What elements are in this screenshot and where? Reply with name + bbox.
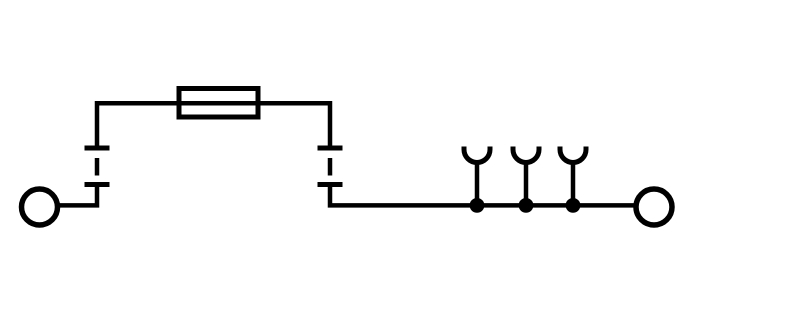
test socket 1 [464,147,490,206]
junction dot 1 [470,198,485,213]
junction dot 3 [566,198,581,213]
disconnect (isolating point) left [85,148,110,185]
wire from left terminal to left disconnect corner [58,183,97,206]
terminal circle right [636,189,672,225]
junction dot 2 [519,198,534,213]
test socket 3 [560,147,586,206]
wire top run from left disconnect through fuse to right disconnect [97,103,330,150]
terminal circle left [22,189,58,225]
test socket 2 [513,147,539,206]
wire bottom bus from right disconnect to right terminal [330,183,636,206]
fuse F1 [179,89,258,118]
disconnect (isolating point) right [318,148,343,185]
